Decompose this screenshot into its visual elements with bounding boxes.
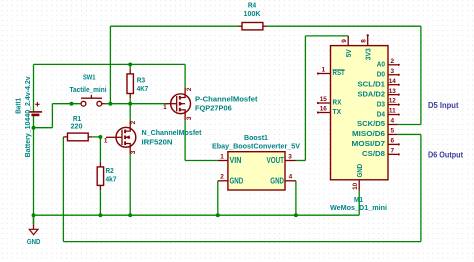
svg-text:MISO/D6: MISO/D6: [352, 131, 385, 138]
svg-text:D6 Output: D6 Output: [428, 151, 463, 160]
svg-text:RX: RX: [333, 100, 342, 107]
svg-text:R3: R3: [137, 76, 145, 85]
svg-text:IRF520N: IRF520N: [142, 137, 173, 146]
svg-text:4k7: 4k7: [106, 175, 117, 184]
svg-text:SCK/D5: SCK/D5: [357, 121, 385, 128]
svg-text:6: 6: [391, 138, 395, 145]
svg-text:D3: D3: [377, 101, 385, 108]
svg-text:GND: GND: [230, 176, 244, 185]
svg-text:15: 15: [320, 96, 328, 103]
svg-text:2: 2: [186, 87, 193, 91]
svg-text:SDA/D2: SDA/D2: [358, 91, 386, 98]
svg-text:N_ChannelMosfet: N_ChannelMosfet: [142, 128, 203, 137]
svg-text:VIN: VIN: [230, 156, 242, 165]
svg-text:2: 2: [220, 174, 224, 181]
svg-text:D4: D4: [377, 111, 385, 118]
svg-text:16: 16: [320, 106, 328, 113]
svg-text:Battery_10440_2.4v-4.2v: Battery_10440_2.4v-4.2v: [23, 76, 32, 157]
svg-text:P-ChannelMosfet: P-ChannelMosfet: [195, 95, 258, 104]
svg-text:4: 4: [391, 118, 395, 125]
svg-text:GND: GND: [27, 237, 41, 246]
svg-text:14: 14: [389, 78, 397, 85]
svg-text:VOUT: VOUT: [267, 156, 285, 165]
svg-text:RST: RST: [333, 70, 346, 77]
svg-text:Batt1: Batt1: [13, 98, 22, 114]
svg-text:Boost1: Boost1: [244, 133, 268, 142]
svg-text:GND: GND: [355, 164, 364, 178]
svg-text:10: 10: [352, 182, 359, 190]
svg-text:A0: A0: [377, 62, 385, 69]
svg-text:3: 3: [186, 116, 193, 120]
svg-text:MOSI/D7: MOSI/D7: [352, 141, 386, 148]
svg-text:11: 11: [389, 108, 396, 115]
svg-text:1: 1: [163, 104, 167, 111]
svg-text:2: 2: [130, 120, 137, 124]
svg-text:7: 7: [391, 147, 395, 154]
svg-text:SW1: SW1: [83, 73, 96, 82]
svg-text:12: 12: [389, 98, 397, 105]
svg-text:D0: D0: [377, 71, 385, 78]
svg-text:Ebay_BoostConverter_5V: Ebay_BoostConverter_5V: [212, 142, 300, 151]
svg-text:1: 1: [220, 154, 224, 161]
svg-text:4K7: 4K7: [137, 84, 149, 93]
svg-text:1: 1: [322, 67, 326, 74]
svg-text:13: 13: [389, 88, 397, 95]
svg-text:100K: 100K: [244, 9, 262, 18]
svg-text:3: 3: [130, 150, 137, 154]
svg-text:220: 220: [71, 121, 83, 130]
svg-text:CS/D8: CS/D8: [362, 151, 385, 158]
svg-text:5: 5: [391, 128, 395, 135]
svg-text:TX: TX: [333, 109, 342, 116]
svg-text:3: 3: [391, 68, 395, 75]
svg-text:FQP27P06: FQP27P06: [195, 104, 232, 113]
svg-text:D5 Input: D5 Input: [428, 101, 459, 110]
svg-text:4: 4: [289, 174, 293, 181]
svg-text:2: 2: [391, 58, 395, 65]
svg-text:1: 1: [104, 137, 108, 144]
svg-text:9: 9: [341, 39, 348, 43]
svg-text:3V3: 3V3: [364, 48, 373, 60]
svg-text:5V: 5V: [344, 49, 353, 57]
svg-text:Tactile_mini: Tactile_mini: [70, 85, 107, 94]
svg-text:WeMos_D1_mini: WeMos_D1_mini: [330, 203, 387, 212]
svg-text:8: 8: [361, 39, 368, 43]
svg-text:GND: GND: [270, 176, 284, 185]
svg-text:3: 3: [288, 154, 292, 161]
svg-text:SCL/D1: SCL/D1: [358, 81, 386, 88]
